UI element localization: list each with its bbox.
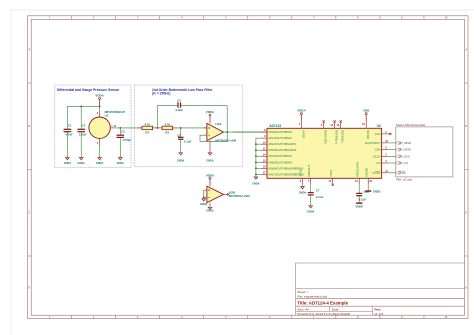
svg-text:REFIN1(+): REFIN1(+) [335, 130, 339, 144]
wire C7 to ground [310, 195, 312, 206]
sheet pin SPI_MISO [396, 142, 401, 145]
svg-text:GNDA: GNDA [206, 210, 214, 213]
ground GNDA C5 [179, 153, 183, 155]
border column ticks [71, 16, 73, 20]
capacitor C7 [308, 192, 314, 194]
junction U2A feedback [226, 131, 228, 133]
svg-text:470pF: 470pF [123, 138, 132, 142]
pressure sensor U1 [89, 117, 110, 138]
wire U2A feedback loop [200, 132, 227, 141]
svg-text:GNDA: GNDA [96, 162, 104, 165]
svg-text:C2: C2 [82, 124, 86, 128]
svg-text:Rev:: Rev: [375, 307, 382, 311]
ADC pin REGCAPD [358, 178, 360, 184]
svg-text:VDDA: VDDA [297, 109, 306, 113]
op-amp U2B [207, 186, 224, 202]
svg-text:4.7uF: 4.7uF [65, 133, 73, 137]
sheet pin SPI_SCK [396, 155, 401, 158]
resistor R2 [162, 126, 173, 130]
ground GNDA AVSS [301, 187, 305, 189]
svg-text:D: D [465, 286, 467, 289]
wire C10 to ground [358, 196, 360, 203]
ADC pin 2 SCLK [382, 155, 388, 157]
svg-text:0.1uF: 0.1uF [359, 197, 367, 201]
capacitor C4 [177, 102, 179, 107]
ADC pin 4 CS [382, 162, 388, 164]
ADC pin REGCAPA2 [310, 178, 312, 184]
svg-text:DIN: DIN [375, 148, 380, 152]
ground GNDA C7 [309, 206, 313, 208]
ADC pin 3 DIN [382, 149, 388, 151]
svg-text:3.3nF: 3.3nF [175, 108, 183, 112]
junction U2B inputs [203, 196, 205, 198]
svg-text:A: A [29, 49, 31, 52]
sheet pin SPI_CS [396, 162, 401, 165]
ADC pin PSW [332, 178, 334, 183]
svg-text:AVSS: AVSS [299, 169, 303, 177]
ADC pin 10 AIN2 [261, 143, 267, 145]
svg-text:SPI_MISO: SPI_MISO [398, 141, 411, 145]
svg-text:GNDA: GNDA [307, 211, 315, 214]
wire ADC to sheet row 4 [388, 162, 396, 164]
ground GNDA C3 [119, 158, 123, 160]
svg-text:CS: CS [376, 161, 380, 165]
ADC pin IOVDD [365, 121, 367, 128]
svg-text:GNDA: GNDA [206, 159, 214, 162]
svg-text:B: B [465, 125, 467, 128]
svg-text:SYNC: SYNC [398, 171, 406, 175]
wire U2B vss [209, 203, 211, 208]
border row ticks [28, 82, 32, 84]
junction rail C2 [80, 105, 82, 107]
svg-text:U1: U1 [105, 113, 109, 117]
ground GNDA C2 [79, 158, 83, 160]
wire VDDA rail [67, 105, 99, 107]
capacitor C1 [64, 128, 72, 130]
svg-text:AIN3/IOUT/VBIAS/P2: AIN3/IOUT/VBIAS/P2 [268, 148, 296, 152]
svg-text:GNDA: GNDA [117, 162, 125, 165]
svg-text:Differential and Gauge Pressur: Differential and Gauge Pressure Sensor [57, 88, 120, 92]
svg-text:CLK: CLK [375, 132, 381, 136]
svg-text:GNDA: GNDA [177, 159, 185, 162]
ground GNDA C1 [66, 158, 70, 160]
svg-text:DOUT/RDY: DOUT/RDY [365, 141, 380, 145]
svg-text:SPI_MOSI: SPI_MOSI [398, 148, 411, 152]
svg-text:VDDA: VDDA [206, 110, 215, 114]
wire AIN bus to ground [256, 137, 261, 139]
ADC pin 14 AIN4 [261, 155, 267, 157]
wire C3 to ground [119, 137, 121, 157]
svg-text:AIN1/IOUT/VBIAS: AIN1/IOUT/VBIAS [268, 136, 292, 140]
svg-text:C: C [465, 212, 467, 215]
capacitor C2 [77, 128, 85, 130]
svg-text:U2A: U2A [215, 122, 222, 126]
svg-text:1.0uF: 1.0uF [79, 133, 87, 137]
ground GNDA AIN bus [254, 177, 258, 179]
svg-text:AIN0/IOUT/VBIAS: AIN0/IOUT/VBIAS [268, 130, 292, 134]
svg-text:Sheet: MicroController: Sheet: MicroController [396, 123, 426, 127]
svg-text:0.1uF: 0.1uF [184, 140, 192, 144]
ADC pin REFIN1+ [334, 122, 336, 128]
svg-text:4.7k: 4.7k [144, 122, 150, 126]
svg-text:File: uC.sch: File: uC.sch [396, 177, 412, 181]
ground GNDD C10 [356, 202, 362, 204]
svg-text:GNDA: GNDA [78, 162, 86, 165]
wire ADC to sheet row 1 [388, 142, 396, 144]
wire C4 to output [181, 105, 227, 107]
svg-text:R1: R1 [145, 131, 149, 135]
svg-text:File: esquematico.sch: File: esquematico.sch [297, 295, 327, 299]
sensor section box [55, 85, 131, 168]
svg-text:Sheet: /: Sheet: / [297, 290, 308, 294]
svg-text:GNDA: GNDA [200, 203, 208, 206]
svg-text:REFOUT: REFOUT [307, 164, 311, 176]
svg-text:DGND: DGND [364, 168, 368, 177]
ADC pin 15 AIN5 [261, 161, 267, 163]
ground GNDA U2A [208, 153, 212, 155]
svg-text:AIN4/IOUT/VBIAS: AIN4/IOUT/VBIAS [268, 154, 292, 158]
svg-text:R2: R2 [165, 131, 169, 135]
svg-text:A: A [465, 49, 467, 52]
ADC pin 11 SYNC [382, 172, 388, 174]
svg-text:Title: AD7124-4 Example: Title: AD7124-4 Example [297, 301, 348, 306]
no-connect CLK pin [388, 133, 390, 135]
svg-text:Id: 1/3: Id: 1/3 [375, 312, 384, 316]
ADC U3 body [267, 128, 382, 178]
page edge [10, 10, 12, 335]
wire sensor bottom pin [99, 138, 101, 146]
wire feedback up [156, 106, 158, 128]
ground GNDA sensor [98, 158, 102, 160]
op-amp U2A [207, 123, 224, 140]
svg-text:VDDA: VDDA [206, 173, 215, 177]
filter section box [134, 85, 242, 167]
svg-text:GNDA: GNDA [252, 183, 260, 186]
ADC pin 8 AIN0 [261, 131, 267, 133]
junction R1 R2 [156, 127, 158, 129]
no-connect U2B output [224, 193, 228, 195]
ADC pin 24 DOUT/RDY [382, 142, 388, 144]
wire C2 to ground [80, 132, 82, 158]
svg-text:IOVDD: IOVDD [366, 130, 370, 139]
wire AIN0 stub [233, 131, 261, 133]
wire U2A output [224, 131, 268, 133]
svg-text:MCP6002-xSN: MCP6002-xSN [229, 194, 251, 198]
wire U2A vss [209, 141, 211, 153]
svg-text:GNDD: GNDD [373, 191, 381, 194]
ground GNDD DGND [365, 190, 371, 192]
wire ADC to sheet row 2 [388, 149, 396, 151]
svg-text:Date:: Date: [332, 307, 340, 311]
ground GNDA U2B inputs [202, 199, 206, 201]
ADC pin AVDD [300, 121, 302, 128]
wire ADC to sheet row 5 [388, 172, 396, 174]
svg-text:SCLK: SCLK [373, 154, 381, 158]
svg-text:C1: C1 [68, 124, 72, 128]
svg-text:REFIN1(-): REFIN1(-) [341, 130, 345, 143]
ADC pin REGCAPA [323, 122, 325, 128]
ADC pin REFIN1- [340, 122, 342, 128]
svg-text:SPI_CS: SPI_CS [398, 161, 408, 165]
ADC pin 16 AIN6 [261, 167, 267, 169]
capacitor C5 [178, 136, 184, 138]
sheet pin SYNC [396, 171, 401, 174]
capacitor C10 [356, 192, 362, 194]
svg-text:PSW: PSW [329, 170, 333, 177]
sheet pin SPI_MOSI [396, 148, 401, 151]
svg-text:GNDA: GNDA [299, 192, 307, 195]
svg-text:VDDA: VDDA [95, 94, 104, 98]
svg-text:AD7124: AD7124 [269, 124, 281, 128]
sheet MicroController box [396, 127, 453, 177]
svg-text:(fc = 250Hz): (fc = 250Hz) [152, 92, 170, 96]
svg-text:D: D [29, 286, 31, 289]
ground GNDA U2B [208, 207, 212, 209]
wire ADC to sheet row 3 [388, 155, 396, 157]
capacitor C3 [117, 134, 125, 136]
wire C5 down [180, 128, 182, 137]
svg-text:0.1uF: 0.1uF [316, 195, 324, 199]
wire sensor top pin [99, 106, 101, 110]
svg-text:KiCad E.D.A. kicad 5.1.5+dfsg: KiCad E.D.A. kicad 5.1.5+dfsg1-2build2 [297, 312, 350, 316]
wire C1 to ground [66, 132, 68, 158]
ADC pin 11 AIN3 [261, 149, 267, 151]
svg-text:C7: C7 [316, 189, 320, 193]
svg-text:REGCAPA: REGCAPA [324, 130, 328, 144]
junction C5 tap [180, 127, 182, 129]
svg-text:GNDD: GNDD [356, 205, 364, 208]
svg-text:AVDD: AVDD [301, 130, 305, 138]
svg-text:VDD: VDD [363, 109, 370, 113]
svg-text:GNDA: GNDA [64, 162, 72, 165]
resistor R1 [142, 126, 153, 130]
junction rail sensor [99, 105, 101, 107]
svg-text:Size: A4: Size: A4 [297, 307, 309, 311]
svg-text:B: B [29, 125, 31, 128]
svg-text:4.7k: 4.7k [164, 122, 170, 126]
ADC pin AVSS [302, 178, 304, 184]
svg-text:REGCAPD: REGCAPD [355, 162, 359, 176]
ADC pin 17 AIN7 [261, 173, 267, 175]
ADC pin 9 AIN1 [261, 137, 267, 139]
wire C5 to ground [180, 139, 182, 153]
wire U2B inputs tied [203, 190, 205, 197]
ADC pin DGND [367, 178, 369, 184]
svg-text:SPI_SCK: SPI_SCK [398, 154, 410, 158]
junction C3 tap [119, 127, 121, 129]
junctions AIN bus [255, 143, 257, 145]
svg-text:U3: U3 [377, 124, 381, 128]
svg-text:AIN2/IOUT/VBIAS/P1: AIN2/IOUT/VBIAS/P1 [268, 142, 296, 146]
title block outline [295, 263, 297, 315]
svg-text:C3: C3 [121, 130, 125, 134]
wire sensor output pin [110, 127, 114, 129]
wire C3 tap [119, 128, 121, 135]
svg-text:C5: C5 [177, 133, 181, 137]
svg-text:C: C [29, 212, 31, 215]
svg-text:AIN5/IOUT/VBIAS: AIN5/IOUT/VBIAS [268, 160, 292, 164]
svg-text:C4: C4 [177, 99, 181, 103]
ADC pin 5 CLK [382, 133, 388, 135]
svg-text:SYNC: SYNC [372, 171, 380, 175]
wire R2 to opamp [173, 127, 207, 129]
svg-text:MCP6002-xSN: MCP6002-xSN [215, 138, 237, 142]
